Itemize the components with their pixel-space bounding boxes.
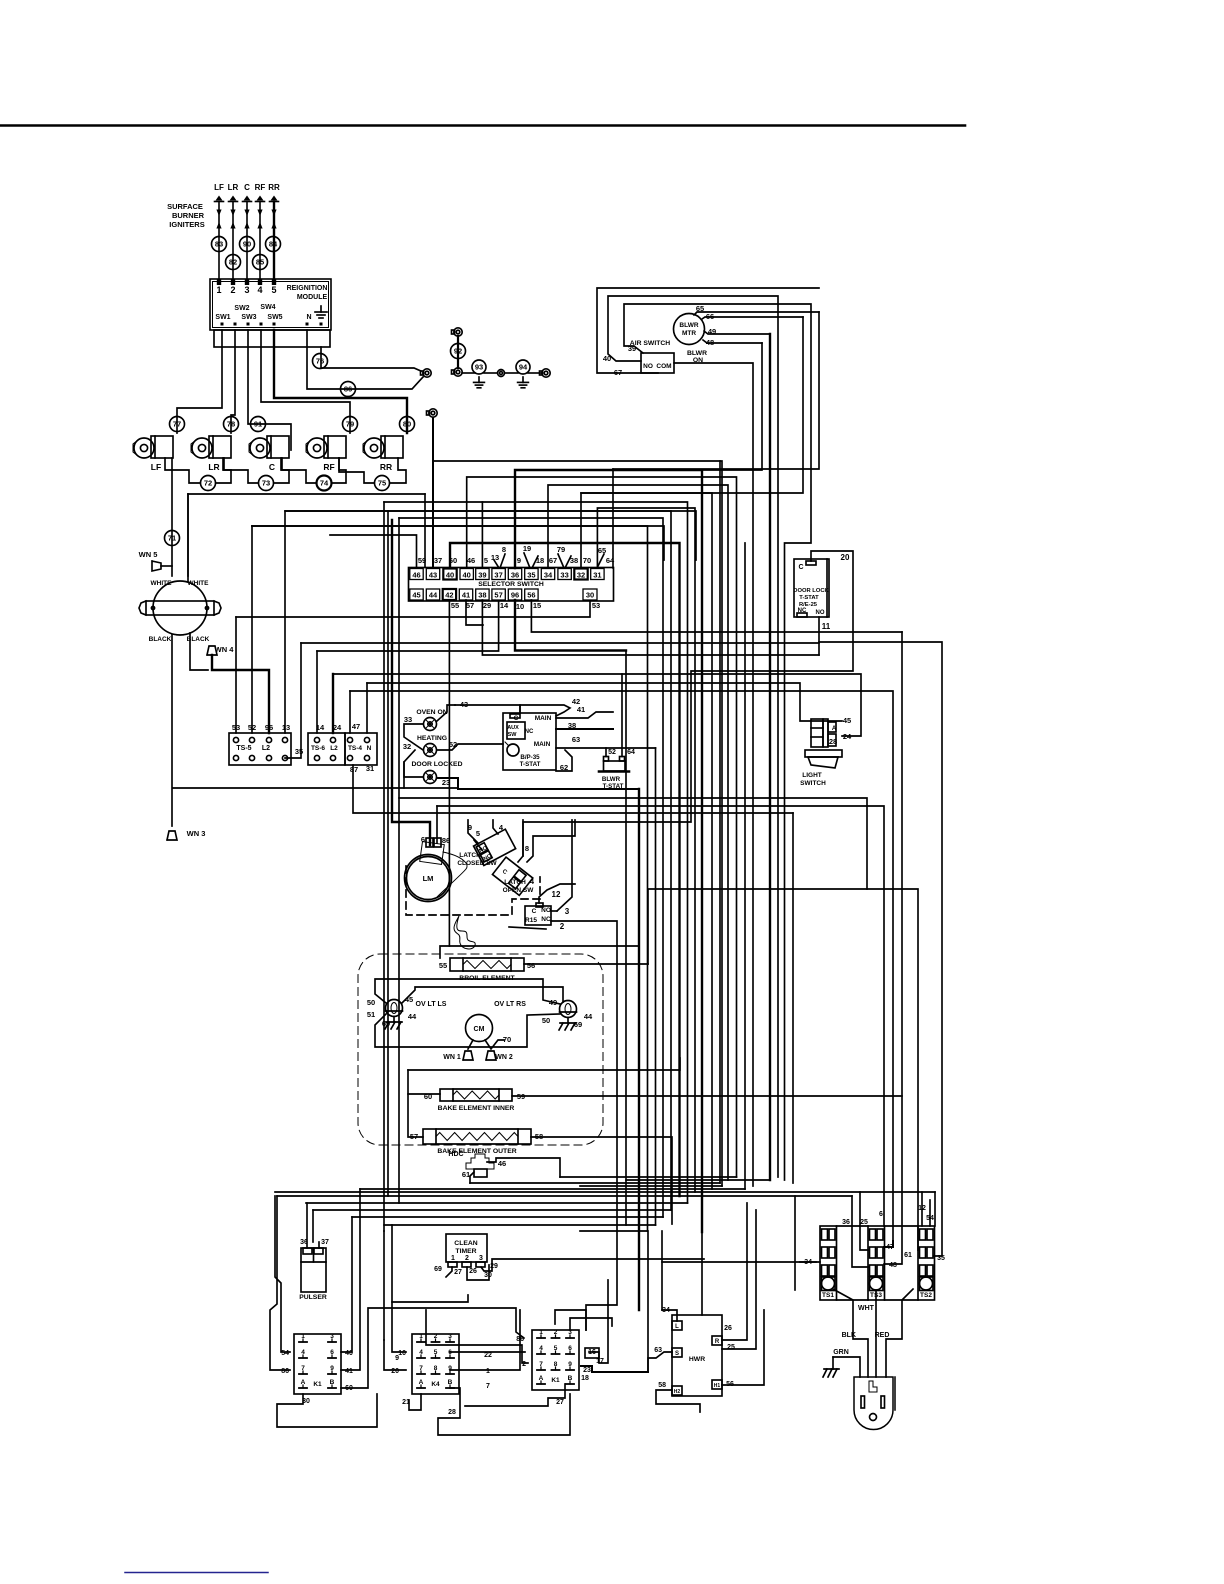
svg-text:84: 84 bbox=[269, 240, 278, 249]
svg-text:1: 1 bbox=[216, 285, 221, 295]
air switch S2 bbox=[630, 340, 707, 373]
svg-text:86: 86 bbox=[442, 836, 450, 845]
terminal strip TS2 bbox=[918, 1226, 935, 1300]
svg-text:C: C bbox=[532, 908, 537, 915]
burner switch RR bbox=[363, 436, 403, 472]
svg-text:26: 26 bbox=[724, 1325, 732, 1332]
wire latch 8 bbox=[518, 820, 523, 862]
wire HWR 63 bbox=[648, 1352, 672, 1372]
label 11 bbox=[822, 622, 831, 631]
wire latch 9 bbox=[468, 820, 478, 843]
svg-text:3: 3 bbox=[244, 285, 249, 295]
wire LF switch down bbox=[171, 458, 173, 576]
svg-text:8: 8 bbox=[525, 844, 529, 853]
svg-text:69: 69 bbox=[434, 1266, 442, 1273]
svg-text:5: 5 bbox=[271, 285, 276, 295]
svg-text:46: 46 bbox=[498, 1159, 506, 1168]
svg-text:76: 76 bbox=[316, 357, 324, 366]
svg-text:R: R bbox=[715, 1339, 720, 1345]
wire K1L 60 bbox=[341, 1308, 524, 1388]
svg-text:BLWR: BLWR bbox=[679, 322, 698, 329]
relay K4 bbox=[412, 1333, 459, 1394]
label 51 bbox=[367, 1010, 375, 1019]
label 12 bbox=[552, 890, 561, 899]
svg-text:22: 22 bbox=[484, 1352, 492, 1359]
svg-text:MAIN: MAIN bbox=[535, 715, 552, 722]
svg-text:6: 6 bbox=[879, 1211, 883, 1218]
wire 90 bbox=[240, 237, 255, 252]
svg-text:52: 52 bbox=[449, 740, 457, 749]
svg-text:2: 2 bbox=[554, 1329, 558, 1336]
broil element bbox=[439, 958, 535, 982]
svg-text:35: 35 bbox=[527, 571, 535, 580]
svg-text:47: 47 bbox=[352, 722, 360, 731]
svg-text:54: 54 bbox=[281, 1350, 289, 1357]
surface burner igniters label bbox=[167, 202, 205, 229]
svg-text:90: 90 bbox=[243, 240, 251, 249]
ground links 93 94 bbox=[462, 369, 550, 388]
svg-text:B: B bbox=[448, 1379, 453, 1386]
svg-text:TS1: TS1 bbox=[822, 1292, 834, 1299]
label 9 bbox=[468, 823, 472, 832]
wire K1L 40 bbox=[341, 1217, 352, 1352]
label 46 bbox=[498, 1159, 506, 1168]
svg-text:LF: LF bbox=[214, 183, 224, 192]
svg-text:31: 31 bbox=[593, 571, 601, 580]
wire K1R 2 bbox=[426, 1310, 528, 1363]
wire broil right bbox=[524, 963, 648, 965]
svg-text:70: 70 bbox=[503, 1035, 511, 1044]
chassis ground bbox=[823, 1369, 839, 1377]
wire motor black right to WN4 bbox=[190, 633, 208, 670]
svg-text:T-STAT: T-STAT bbox=[520, 761, 541, 768]
wire broil left bbox=[440, 946, 639, 958]
oven lamp left bbox=[385, 1000, 447, 1030]
svg-text:9: 9 bbox=[395, 1355, 399, 1362]
wire K1R top bbox=[555, 1310, 612, 1330]
main wire bundle verticals bbox=[626, 461, 793, 1315]
svg-text:41: 41 bbox=[345, 1368, 353, 1375]
wire 74 bbox=[317, 476, 332, 491]
TS outer box bbox=[837, 1226, 919, 1300]
label 86b bbox=[442, 836, 450, 845]
svg-text:94: 94 bbox=[519, 363, 528, 372]
svg-text:36: 36 bbox=[511, 571, 519, 580]
fan motor M1 bbox=[139, 580, 221, 643]
svg-text:23: 23 bbox=[442, 778, 450, 787]
wire K1R 23 bbox=[581, 1366, 648, 1372]
wire RED bbox=[875, 1289, 913, 1377]
svg-text:32: 32 bbox=[577, 571, 585, 580]
svg-text:87: 87 bbox=[350, 765, 358, 774]
wire TS-4 47 up bbox=[349, 691, 351, 733]
label 62 bbox=[560, 763, 568, 772]
svg-text:56: 56 bbox=[527, 961, 535, 970]
latch striker bbox=[454, 916, 475, 949]
svg-text:TS-5: TS-5 bbox=[236, 745, 251, 752]
svg-text:L2: L2 bbox=[262, 745, 270, 752]
wire 94 bbox=[516, 360, 530, 374]
wire 39 net bbox=[624, 304, 811, 1180]
oven on lamp DS1 bbox=[416, 709, 447, 731]
svg-text:43: 43 bbox=[429, 571, 437, 580]
wire TS-6 14 up bbox=[316, 651, 318, 733]
label 52b bbox=[449, 740, 457, 749]
svg-text:RF: RF bbox=[323, 462, 334, 472]
net left h518 bbox=[399, 518, 663, 1217]
label 33 bbox=[404, 715, 412, 724]
svg-text:WN 3: WN 3 bbox=[187, 829, 206, 838]
svg-text:LR: LR bbox=[208, 462, 219, 472]
selector pin labels bbox=[418, 544, 615, 565]
wire K4 22 bbox=[450, 1351, 525, 1353]
svg-text:B: B bbox=[568, 1375, 573, 1382]
label 49b bbox=[549, 998, 557, 1007]
svg-text:SW2: SW2 bbox=[234, 305, 249, 312]
svg-text:7: 7 bbox=[419, 1365, 423, 1372]
svg-text:SW3: SW3 bbox=[241, 314, 256, 321]
wire 93 bbox=[472, 360, 486, 374]
svg-text:45: 45 bbox=[412, 591, 420, 600]
label 39 bbox=[628, 344, 636, 353]
hi-limit HDC bbox=[448, 1151, 494, 1177]
svg-text:40: 40 bbox=[463, 571, 471, 580]
latch dashed boundary bbox=[406, 866, 540, 915]
svg-text:78: 78 bbox=[227, 420, 235, 429]
wire latch 5 bbox=[474, 840, 482, 850]
svg-text:20: 20 bbox=[391, 1368, 399, 1375]
wire TS 12 bbox=[921, 1192, 923, 1226]
wire SW4 to RF switch bbox=[261, 330, 350, 433]
svg-text:59: 59 bbox=[418, 556, 426, 565]
wire 86 bbox=[341, 382, 356, 397]
wire 76 bbox=[313, 354, 328, 369]
burner switch RF bbox=[306, 436, 346, 472]
wire relay NC bbox=[551, 921, 617, 1330]
wire nut WN 2 bbox=[486, 1051, 513, 1061]
svg-text:52: 52 bbox=[608, 749, 616, 756]
svg-text:83: 83 bbox=[215, 240, 223, 249]
svg-text:COM: COM bbox=[656, 363, 671, 370]
svg-text:1: 1 bbox=[486, 1368, 490, 1375]
wire TS 36 bbox=[852, 1196, 869, 1267]
label 24b bbox=[843, 732, 852, 741]
wire 73 bbox=[259, 476, 274, 491]
wire tstat 38 bbox=[556, 728, 613, 730]
svg-text:4: 4 bbox=[539, 1345, 543, 1352]
svg-text:39: 39 bbox=[478, 571, 486, 580]
net 14 bbox=[317, 601, 499, 651]
wire 15 down bbox=[531, 600, 902, 632]
svg-text:96: 96 bbox=[511, 591, 519, 600]
svg-text:RR: RR bbox=[380, 462, 392, 472]
wire TS-5 53 up bbox=[235, 617, 237, 733]
wire SW3 to C switch bbox=[248, 330, 291, 450]
wire ring to latch motor bbox=[433, 418, 437, 843]
wire 85 bbox=[253, 255, 268, 270]
wire tstat main2 63net bbox=[556, 747, 656, 749]
ring terminal N bbox=[421, 369, 432, 377]
wire pulser 36 bbox=[306, 1203, 308, 1248]
svg-text:A: A bbox=[539, 1375, 544, 1382]
svg-text:WN 1: WN 1 bbox=[443, 1054, 461, 1061]
wire bottom mid 63 riser bbox=[648, 1196, 795, 1372]
wire LF sw to 72 to LR bbox=[165, 458, 231, 483]
svg-text:3: 3 bbox=[448, 1333, 452, 1340]
svg-text:6: 6 bbox=[568, 1345, 572, 1352]
label 29b bbox=[490, 1263, 498, 1270]
wire tstat 62 bbox=[556, 750, 572, 771]
wire 83 bbox=[212, 237, 227, 252]
svg-text:SWITCH: SWITCH bbox=[800, 780, 826, 787]
svg-text:37: 37 bbox=[321, 1239, 329, 1246]
svg-text:77: 77 bbox=[173, 420, 181, 429]
label 45b bbox=[405, 995, 413, 1004]
svg-text:BAKE ELEMENT INNER: BAKE ELEMENT INNER bbox=[438, 1105, 515, 1112]
svg-text:55: 55 bbox=[451, 601, 459, 610]
label 42 bbox=[572, 697, 580, 706]
wire 79 bbox=[343, 417, 358, 432]
svg-text:9: 9 bbox=[568, 1361, 572, 1368]
svg-text:HWR: HWR bbox=[689, 1356, 705, 1363]
latch motor LM bbox=[405, 838, 468, 902]
svg-text:OV LT LS: OV LT LS bbox=[416, 1001, 447, 1008]
burner switch LF bbox=[133, 436, 173, 472]
svg-text:WN 4: WN 4 bbox=[215, 645, 235, 654]
net 35 long bbox=[301, 642, 819, 644]
svg-text:30: 30 bbox=[484, 1272, 492, 1279]
svg-text:12: 12 bbox=[552, 890, 561, 899]
wire TS-6 24 up bbox=[332, 674, 334, 733]
svg-text:SURFACE: SURFACE bbox=[167, 202, 203, 211]
svg-text:BLWR: BLWR bbox=[687, 350, 707, 357]
svg-text:A: A bbox=[832, 726, 837, 732]
label 48 bbox=[706, 338, 714, 347]
label 44 bbox=[408, 1012, 417, 1021]
TS labels bbox=[804, 1205, 945, 1269]
svg-text:4: 4 bbox=[257, 285, 262, 295]
svg-text:NO: NO bbox=[541, 907, 551, 914]
wire latch 4 bbox=[493, 820, 498, 834]
svg-text:A: A bbox=[419, 1379, 424, 1386]
wire SW1 to LF switch bbox=[177, 330, 222, 433]
terminal strip TS3 bbox=[868, 1226, 885, 1300]
branch h813 87net bbox=[353, 765, 793, 813]
wire nut WN 3 bbox=[167, 829, 205, 840]
svg-text:H1: H1 bbox=[714, 1383, 721, 1389]
svg-text:50: 50 bbox=[367, 998, 375, 1007]
svg-text:8: 8 bbox=[434, 1365, 438, 1372]
svg-text:RF: RF bbox=[255, 183, 266, 192]
burner return bus bbox=[188, 494, 425, 576]
svg-text:74: 74 bbox=[320, 479, 329, 488]
igniter terminal labels LF LR C RF RR bbox=[214, 183, 280, 192]
svg-text:26: 26 bbox=[469, 1268, 477, 1275]
wire nut WN 1 bbox=[443, 1051, 473, 1061]
svg-text:TS2: TS2 bbox=[920, 1292, 932, 1299]
svg-text:70: 70 bbox=[583, 556, 591, 565]
svg-text:50: 50 bbox=[542, 1016, 550, 1025]
label 4 bbox=[499, 823, 504, 832]
svg-text:15: 15 bbox=[533, 601, 541, 610]
svg-text:LATCH: LATCH bbox=[504, 879, 526, 886]
svg-text:69: 69 bbox=[574, 1020, 582, 1029]
wire 66 net bbox=[581, 317, 803, 493]
branch h798 bbox=[399, 798, 867, 889]
svg-text:CLEAN: CLEAN bbox=[454, 1240, 478, 1247]
svg-text:19: 19 bbox=[523, 544, 531, 553]
svg-text:K4: K4 bbox=[431, 1381, 440, 1388]
wire pulser 37 bbox=[313, 1210, 319, 1248]
svg-text:27: 27 bbox=[454, 1269, 462, 1276]
wire ovlt 45 bbox=[402, 987, 563, 1003]
wire RF sw to 75 to RR bbox=[339, 458, 406, 483]
wire relay NO bbox=[551, 820, 572, 911]
wire door lock C 20 net bbox=[523, 551, 853, 856]
door locked lamp DS3 bbox=[412, 761, 463, 784]
svg-text:NO: NO bbox=[643, 363, 653, 370]
svg-text:SW5: SW5 bbox=[267, 314, 282, 321]
wire K4 28 bbox=[438, 1388, 570, 1435]
wire lamp1 right bbox=[437, 705, 520, 721]
label 61 bbox=[462, 1170, 470, 1179]
wire K4 7 bbox=[450, 1310, 520, 1370]
wire HWR 25 bbox=[722, 1210, 756, 1349]
relay 16 box bbox=[585, 1348, 599, 1358]
svg-text:LF: LF bbox=[151, 462, 161, 472]
svg-text:OV LT RS: OV LT RS bbox=[494, 1001, 526, 1008]
wire K1L 86 bbox=[270, 1196, 290, 1370]
svg-text:6: 6 bbox=[421, 835, 425, 844]
svg-text:1: 1 bbox=[539, 1329, 543, 1336]
label 6 bbox=[421, 835, 425, 844]
svg-text:T-STAT: T-STAT bbox=[603, 783, 624, 790]
svg-text:11: 11 bbox=[822, 622, 831, 631]
svg-text:3: 3 bbox=[330, 1333, 334, 1340]
svg-text:DOOR LOCK: DOOR LOCK bbox=[793, 588, 829, 594]
svg-text:53: 53 bbox=[592, 601, 600, 610]
svg-text:28: 28 bbox=[829, 737, 837, 746]
wire HWR 26 bbox=[722, 1203, 747, 1340]
label 44b bbox=[584, 1012, 593, 1021]
wire K1R 17 bbox=[589, 1280, 608, 1363]
terminal strip TS-5 bbox=[229, 723, 303, 765]
svg-text:R15: R15 bbox=[525, 917, 537, 924]
label 43 bbox=[460, 700, 468, 709]
wire TS 34b bbox=[800, 1261, 820, 1263]
label 20 bbox=[841, 553, 850, 562]
wire TS-4 N up bbox=[366, 683, 368, 733]
wire 84 bbox=[266, 237, 281, 252]
wire K1L 41 bbox=[341, 1189, 360, 1370]
svg-text:44: 44 bbox=[584, 1012, 593, 1021]
wire WHT bbox=[858, 1290, 876, 1377]
svg-text:1: 1 bbox=[451, 1255, 455, 1262]
wire 29 down to door lock NO bbox=[482, 600, 819, 655]
wire K4 20 bbox=[384, 1340, 406, 1370]
wire 82 bbox=[226, 255, 241, 270]
wire K1R 27 bbox=[465, 1384, 565, 1406]
reignition module U1 bbox=[210, 279, 331, 330]
wire 49 net bbox=[704, 331, 770, 1180]
svg-text:3: 3 bbox=[479, 1255, 483, 1262]
svg-text:MAIN: MAIN bbox=[534, 741, 551, 748]
wire tstat main bbox=[556, 712, 613, 718]
svg-text:C: C bbox=[501, 869, 509, 877]
svg-text:9: 9 bbox=[517, 556, 521, 565]
svg-text:2: 2 bbox=[465, 1255, 469, 1262]
wire blwr on net bbox=[674, 363, 753, 1186]
wire BLK bbox=[833, 1289, 868, 1377]
svg-text:SW4: SW4 bbox=[260, 304, 275, 311]
svg-text:NC: NC bbox=[541, 916, 551, 923]
wire lamp2 right bbox=[437, 744, 503, 750]
wire bake inner bbox=[408, 1058, 680, 1094]
svg-text:40: 40 bbox=[446, 571, 454, 580]
svg-text:86: 86 bbox=[281, 1368, 289, 1375]
wire timer 2 bbox=[467, 1265, 489, 1280]
svg-text:5: 5 bbox=[476, 829, 480, 838]
module wire channel bbox=[214, 330, 330, 347]
svg-text:33: 33 bbox=[404, 715, 412, 724]
svg-text:PULSER: PULSER bbox=[299, 1294, 327, 1301]
svg-text:N: N bbox=[306, 314, 311, 321]
oven t-stat B/P-35 bbox=[503, 713, 556, 770]
svg-text:K1: K1 bbox=[313, 1381, 322, 1388]
net left h503 bbox=[384, 502, 688, 1203]
svg-text:25: 25 bbox=[860, 1219, 868, 1226]
svg-text:82: 82 bbox=[229, 258, 237, 267]
wire relay coil bbox=[539, 884, 575, 903]
svg-text:44: 44 bbox=[408, 1012, 417, 1021]
wire TS 25 bbox=[860, 1192, 869, 1250]
wire SW5 to RR switch bbox=[274, 330, 407, 433]
svg-text:A: A bbox=[301, 1379, 306, 1386]
svg-text:L: L bbox=[675, 1324, 679, 1330]
power plug P1 bbox=[854, 1377, 895, 1430]
svg-text:C: C bbox=[244, 183, 250, 192]
svg-text:L2: L2 bbox=[330, 745, 338, 752]
wire 10 down bold bbox=[515, 600, 626, 651]
svg-text:13: 13 bbox=[282, 723, 290, 732]
relay K1 right labels bbox=[516, 1336, 604, 1406]
pulser motor bbox=[299, 1239, 329, 1301]
svg-text:TS-4: TS-4 bbox=[348, 745, 362, 752]
svg-text:5: 5 bbox=[554, 1345, 558, 1352]
wire LR sw to 73 to C bbox=[223, 458, 289, 483]
svg-text:8: 8 bbox=[502, 545, 506, 554]
wire 92 bbox=[451, 344, 466, 359]
label 50b bbox=[542, 1016, 550, 1025]
wire 86 net bbox=[392, 1295, 468, 1302]
svg-text:80: 80 bbox=[403, 420, 411, 429]
selector bottom labels bbox=[451, 601, 600, 611]
svg-text:63: 63 bbox=[572, 735, 580, 744]
svg-text:18: 18 bbox=[581, 1375, 589, 1382]
label 28 bbox=[829, 737, 837, 746]
svg-text:S: S bbox=[675, 1351, 679, 1357]
svg-text:36: 36 bbox=[842, 1219, 850, 1226]
ground strap 92 bbox=[452, 328, 463, 376]
label 27 bbox=[454, 1269, 462, 1276]
svg-text:GRN: GRN bbox=[833, 1349, 849, 1356]
svg-text:37: 37 bbox=[434, 556, 442, 565]
wire tstat top bbox=[520, 705, 570, 716]
ring terminal RR bbox=[427, 409, 438, 417]
svg-text:B/P-35: B/P-35 bbox=[520, 754, 540, 761]
wire CM leads bbox=[468, 1040, 504, 1049]
label 4b bbox=[530, 877, 535, 886]
